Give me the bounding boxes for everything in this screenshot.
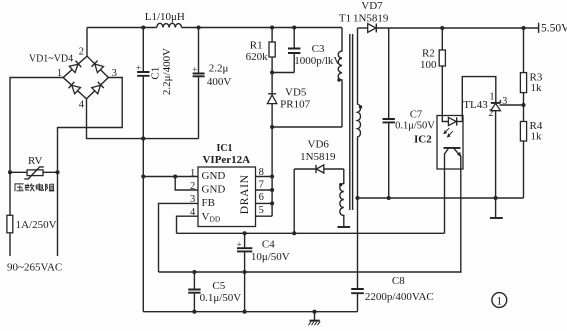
junction dot R2 top [440,26,444,30]
junction dot R3 top [521,26,525,30]
wire RV branch [10,171,58,173]
svg-text:8: 8 [259,167,264,178]
capacitor C2 [198,28,200,74]
svg-text:0.1μ/50V: 0.1μ/50V [395,121,435,132]
transformer T1 auxiliary winding [340,169,344,226]
wire AC input left (node 1 to fuse to terminal) [10,78,64,257]
transformer T1 primary winding [338,28,342,128]
op-amp/controller IC1 VIPer12A box [198,167,256,227]
bridge arm diode VD4 (node4 to node3) [83,74,111,102]
junction dot divider tap [521,103,525,107]
junction dot FB at C4 strap [243,270,247,274]
wire DC+ top rail right of L1 to transformer primary corner [182,27,343,29]
transformer T1 core [350,34,353,210]
svg-text:C8: C8 [392,275,405,287]
svg-text:+: + [192,64,197,74]
resistor R3 [523,28,525,73]
wire VDD line [177,232,445,234]
svg-text:100: 100 [420,59,437,71]
svg-text:C3: C3 [312,43,325,55]
junction dot pin 6 [270,201,274,205]
junction dot ground bus at C1 column [141,137,145,141]
glyph dian [36,183,43,190]
wire DC+ top rail left of L1 [87,27,157,29]
svg-text:IC2: IC2 [414,134,432,146]
svg-text:+: + [136,63,141,73]
junction dot R1 bottom [270,70,274,74]
pin 6 stub [256,202,273,204]
ground symbol [312,310,316,314]
bridge arm diode VD2 (node3 to node2) [84,53,112,81]
varistor RV [27,170,43,176]
svg-text:5.50V: 5.50V [541,22,567,34]
junction dot R1 top [270,25,274,29]
svg-text:2200p/400VAC: 2200p/400VAC [365,291,434,303]
svg-text:1k: 1k [531,82,543,94]
wire TL431 ref to R3/R4 divider [500,104,524,106]
phase dot secondary [359,105,362,108]
svg-text:1000p/lkV: 1000p/lkV [294,55,341,67]
svg-text:PR107: PR107 [280,99,310,111]
svg-text:VIPer12A: VIPer12A [202,154,250,166]
junction dot VDD at C4 [243,231,247,235]
diode VD6 [294,168,316,170]
pin 4 VDD wire [177,216,199,233]
phototransistor inside IC2 [444,147,461,149]
svg-text:1: 1 [57,68,62,79]
capacitor C7 [388,28,390,119]
svg-text:L1/10μH: L1/10μH [145,11,185,23]
glyph min [25,184,30,191]
svg-text:2: 2 [190,181,195,192]
svg-text:VD1~VD4: VD1~VD4 [29,53,73,64]
transformer T1 secondary winding [358,28,361,198]
svg-text:IC1: IC1 [216,143,232,154]
svg-text:DRAIN: DRAIN [239,174,251,214]
phase dot auxiliary [339,183,342,186]
junction dot rail at C5 [192,310,196,314]
junction dot bus at secondary winding [355,196,359,200]
wire IC2 collector drop to VDD line [444,169,446,233]
junction dot C2 top [196,25,200,29]
svg-text:2: 2 [489,108,494,119]
svg-text:3: 3 [502,96,507,107]
svg-text:1: 1 [490,91,495,102]
svg-text:1k: 1k [531,131,543,143]
wire IC2 emitter drop to FB line [460,169,463,272]
svg-text:C5: C5 [212,280,225,292]
svg-text:3: 3 [190,194,195,205]
junction dot C3 top [292,25,296,29]
capacitor C1 [142,28,144,73]
svg-text:400V: 400V [207,76,232,88]
pin 3 FB wire [159,203,199,272]
ground bar auxiliary winding return [337,226,350,228]
optocoupler IC2 box [437,116,463,170]
svg-text:0.1μ/50V: 0.1μ/50V [200,292,242,304]
phase dot primary [337,78,340,81]
svg-text:C4: C4 [262,239,275,251]
wire R1/C3 bottom link [272,72,294,74]
output terminal tick [538,23,540,33]
wire primary ground rail [143,311,357,313]
svg-text:RV: RV [28,155,42,167]
wire bridge node 2 riser to DC+ rail [86,28,88,57]
svg-text:2: 2 [79,46,84,57]
capacitor C4 [244,233,246,248]
junction dot pin 7 [270,188,274,192]
figure number circled 1 [492,293,507,308]
junction dot RV left [8,170,12,174]
svg-text:FB: FB [202,197,215,209]
resistor R1 [271,28,273,43]
wire secondary ground bus [358,197,524,199]
svg-text:C1: C1 [150,67,162,80]
svg-text:GND: GND [202,184,226,196]
svg-text:7: 7 [259,179,264,190]
diode VD7 [358,27,368,29]
svg-text:TL43: TL43 [463,99,488,111]
wire strap C4 column to ground rail [244,272,246,312]
svg-text:VD6: VD6 [308,139,330,151]
junction dot RV right [55,170,59,174]
svg-text:GND: GND [202,170,226,182]
svg-text:R2: R2 [422,48,435,60]
junction dot GND line [141,174,145,178]
junction dot rail at strap [243,310,247,314]
svg-text:6: 6 [259,192,264,203]
capacitor C8 [357,198,359,289]
svg-text:90~265VAC: 90~265VAC [7,261,62,273]
glyph ya [15,184,24,191]
junction dot TL431 anode at bus [494,196,498,200]
svg-text:C7: C7 [410,109,422,120]
junction dot drain node [270,125,274,129]
svg-text:4: 4 [79,99,85,110]
wire AC input right (terminal up to RV junction up to node 3) [58,78,123,257]
wire drain horizontal to primary [272,126,342,128]
pin 8 stub [256,176,273,178]
junction dot C1 top [141,25,145,29]
svg-text:1A/250V: 1A/250V [16,219,57,231]
wire bridge output node 4 down and right to ground bus [87,99,199,139]
glyph zu [46,184,48,192]
wire VD6 anode drop to VDD line [293,169,295,233]
wire C2 bottom drop [198,76,200,138]
svg-text:1: 1 [496,295,502,307]
wire LED cathode feedback loop to TL431 [462,77,496,122]
svg-text:2.2μ: 2.2μ [209,63,229,75]
resistor R2 [441,28,443,50]
LED inside IC2 [442,116,448,122]
label chinese varistor text (drawn glyphs) [15,183,55,191]
fuse 1A/250V [7,215,13,233]
inductor L1 [157,23,182,27]
junction dot bus at C7 [387,196,391,200]
svg-text:10μ/50V: 10μ/50V [251,251,290,263]
pin 7 stub [256,189,273,191]
diode VD5 [268,93,276,95]
svg-text:1N5819: 1N5819 [353,13,389,25]
svg-text:VD7: VD7 [361,0,383,12]
svg-text:1: 1 [190,168,195,179]
bridge arm diode VD1 (node1 to node2) [60,53,90,81]
wire FB line [159,271,462,273]
svg-text:VD5: VD5 [285,87,307,99]
junction dot pin1/pin2 tie [173,174,177,178]
svg-text:3: 3 [112,68,117,79]
capacitor C3 [293,28,295,49]
LED light arrows [445,128,453,136]
svg-text:4: 4 [190,207,196,218]
svg-text:+: + [236,239,241,249]
junction dot FB at C5 [192,270,196,274]
svg-text:5: 5 [259,205,264,216]
bridge arm diode VD3 (node4 to node1) [60,74,90,103]
capacitor C5 [193,272,195,290]
pin 5 stub [256,215,273,217]
ground bar TL431 anode [490,217,503,219]
pin 2 GND wire [175,177,198,191]
svg-text:T1: T1 [339,13,351,25]
resistor R4 [520,122,526,142]
junction dot pin 8 [270,174,274,178]
svg-text:620k: 620k [246,51,269,63]
junction dot VDD at VD6 [292,231,296,235]
svg-text:2.2μ/400V: 2.2μ/400V [161,48,173,95]
svg-text:1N5819: 1N5819 [300,151,336,163]
pin 1 GND wire [143,176,198,178]
shunt reference TL431 [491,102,501,104]
